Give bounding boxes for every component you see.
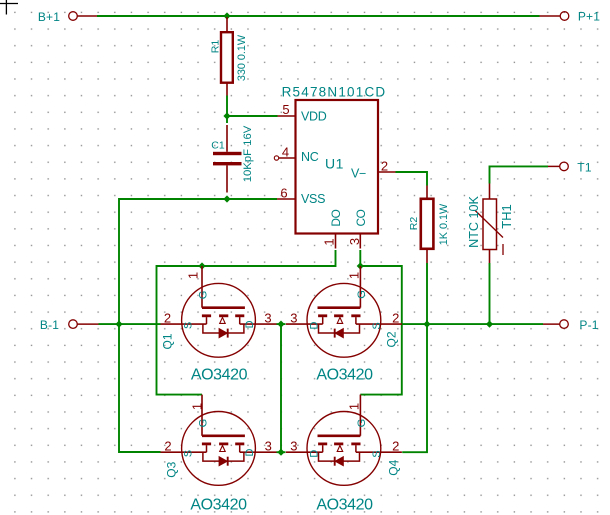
svg-text:G: G (356, 290, 368, 299)
svg-text:3: 3 (264, 311, 271, 326)
svg-text:1: 1 (347, 403, 362, 410)
svg-text:P-1: P-1 (579, 318, 598, 332)
connector pin P-1 (543, 320, 568, 329)
Q4 S label (371, 450, 383, 457)
U1 pin 5 VDD (278, 102, 327, 124)
svg-text:2: 2 (381, 158, 388, 173)
junction at R1 top on B+ wire (223, 12, 230, 19)
Q4 pin 2 number (392, 439, 399, 454)
value AO3420 (Q2) (316, 367, 373, 384)
junction drains row2 (277, 449, 284, 456)
svg-text:2: 2 (392, 311, 399, 326)
Q2 pin 1 number (347, 272, 362, 279)
svg-text:P+1: P+1 (578, 10, 600, 24)
wire R1 bottom to U1 VDD (227, 96, 278, 124)
junction C1 bottom on VSS wire (223, 195, 230, 202)
Q1 G label (198, 291, 210, 300)
value 1K 0.1W (438, 203, 450, 245)
refdes Q2 (384, 331, 398, 347)
Q3 G label (198, 419, 210, 428)
value AO3420 (Q4) (316, 496, 373, 513)
svg-text:S: S (183, 450, 195, 457)
sheet corner marker (0, 0, 18, 15)
op-amp U1 R5478N101CD body (296, 100, 379, 234)
svg-text:CO: CO (354, 209, 368, 226)
svg-text:VDD: VDD (301, 110, 327, 124)
value AO3420 (Q1) (191, 367, 248, 384)
svg-text:Q4: Q4 (387, 459, 401, 475)
connector pin B-1 (69, 320, 99, 329)
label B+1 (38, 10, 60, 24)
Q1 pin 1 number (186, 272, 201, 279)
svg-text:D: D (244, 320, 256, 328)
refdes U1 (325, 156, 344, 172)
svg-text:R2: R2 (408, 217, 420, 231)
svg-text:V−: V− (351, 167, 366, 181)
svg-text:AO3420: AO3420 (316, 496, 373, 513)
Q2 S label (371, 322, 383, 329)
Q1 pin 2 number (164, 311, 171, 326)
Q4 G label (356, 419, 368, 428)
wire B- row to Q1 source (99, 323, 161, 325)
svg-text:Q2: Q2 (384, 331, 398, 347)
value 10KpF 16V (242, 125, 254, 182)
svg-text:10KpF 16V: 10KpF 16V (242, 125, 254, 182)
wire P- row (402, 323, 543, 325)
resistor R2 (421, 186, 434, 264)
Q3 pin 3 number (265, 439, 272, 454)
svg-text:C1: C1 (211, 140, 225, 152)
svg-text:B-1: B-1 (40, 318, 59, 332)
svg-text:6: 6 (280, 185, 287, 200)
svg-text:R5478N101CD: R5478N101CD (282, 85, 387, 100)
svg-text:AO3420: AO3420 (316, 367, 373, 384)
transistor Q2 (286, 266, 402, 357)
Q2 G label (356, 290, 368, 299)
resistor R1 (221, 17, 233, 96)
value 330 0.1W (236, 34, 248, 81)
svg-text:S: S (371, 322, 383, 329)
wire DO net U1 pin1 to Q1/Q3 gates (157, 250, 336, 395)
transistor Q4 (286, 395, 402, 486)
Q1 D label (244, 320, 256, 328)
label R5478N101CD (282, 85, 387, 100)
svg-text:AO3420: AO3420 (190, 496, 247, 513)
transistor Q1 (161, 266, 277, 357)
svg-text:2: 2 (392, 439, 399, 454)
label TH1 (499, 204, 514, 229)
wire CO net U1 pin3 to Q2/Q4 gates (360, 250, 402, 395)
junction Q1 gate (198, 262, 205, 269)
label T1 (577, 160, 592, 174)
junction R2 at P- (423, 321, 430, 328)
svg-text:2: 2 (164, 311, 171, 326)
connector pin P+1 (540, 12, 569, 21)
svg-text:NTC 10K: NTC 10K (467, 196, 481, 248)
svg-text:4: 4 (282, 145, 289, 160)
label B-1 (40, 318, 59, 332)
wire drain node row1 (277, 324, 286, 452)
svg-text:B+1: B+1 (38, 10, 60, 24)
wire T1 to TH1 (490, 166, 549, 183)
svg-text:G: G (198, 419, 210, 428)
connector pin B+1 (69, 12, 97, 21)
svg-text:Q1: Q1 (160, 333, 174, 349)
svg-text:3: 3 (290, 311, 297, 326)
svg-text:TH1: TH1 (499, 204, 514, 229)
svg-text:G: G (198, 291, 210, 300)
transistor Q3 (161, 395, 277, 486)
U1 pin 4 NC (inverted) (274, 145, 318, 164)
refdes Q1 (160, 333, 174, 349)
junction drains row1 (277, 321, 284, 328)
svg-text:VSS: VSS (301, 192, 325, 206)
svg-text:G: G (356, 419, 368, 428)
svg-text:U1: U1 (325, 156, 344, 172)
Q4 pin 1 number (347, 403, 362, 410)
junction Q2 gate (357, 262, 364, 269)
connector pin T1 (548, 162, 568, 171)
svg-text:1K 0.1W: 1K 0.1W (438, 203, 450, 245)
U1 pin 3 CO (347, 209, 368, 248)
Q1 pin 3 number (264, 311, 271, 326)
label P-1 (579, 318, 598, 332)
Q4 pin 3 number (290, 439, 297, 454)
Q2 pin 2 number (392, 311, 399, 326)
svg-text:Q3: Q3 (164, 461, 178, 477)
svg-text:3: 3 (347, 238, 362, 245)
label C1 (211, 140, 225, 152)
Q2 D label (309, 321, 321, 329)
svg-text:1: 1 (190, 403, 205, 410)
svg-text:1: 1 (347, 272, 362, 279)
capacitor C1 (213, 125, 242, 193)
label R2 (408, 217, 420, 231)
refdes Q4 (387, 459, 401, 475)
wire net B+ from B+1 to P+1 (97, 15, 540, 17)
svg-text:3: 3 (290, 439, 297, 454)
refdes Q3 (164, 461, 178, 477)
label R1 (210, 40, 222, 54)
svg-text:S: S (183, 322, 195, 329)
wire R2 bottom to P- (426, 263, 428, 324)
svg-text:AO3420: AO3420 (191, 367, 248, 384)
Q1 S label (183, 322, 195, 329)
svg-text:D: D (309, 321, 321, 329)
svg-text:330 0.1W: 330 0.1W (236, 34, 248, 81)
junction at VDD node (223, 112, 230, 119)
wire TH1 bottom to P- (489, 263, 491, 324)
svg-text:2: 2 (164, 439, 171, 454)
U1 pin 6 VSS (277, 185, 325, 206)
junction VSS at B- column (115, 321, 122, 328)
Q3 S label (183, 450, 195, 457)
svg-text:NC: NC (301, 150, 319, 164)
svg-text:T1: T1 (577, 160, 592, 174)
svg-text:5: 5 (282, 102, 289, 117)
label P+1 (578, 10, 600, 24)
svg-text:1: 1 (322, 238, 337, 245)
svg-text:D: D (244, 448, 256, 456)
svg-text:DO: DO (329, 209, 343, 226)
wire VSS net C1 to U1 and down-left to B- (119, 199, 277, 452)
value AO3420 (Q3) (190, 496, 247, 513)
value NTC 10K (467, 196, 481, 248)
Q2 pin 3 number (290, 311, 297, 326)
wire V- to R2 (396, 172, 428, 186)
svg-text:R1: R1 (210, 40, 222, 54)
svg-text:3: 3 (265, 439, 272, 454)
Q3 pin 2 number (164, 439, 171, 454)
Q4 D label (309, 450, 321, 458)
svg-text:S: S (371, 450, 383, 457)
Q3 pin 1 number (190, 403, 205, 410)
U1 pin 2 V- (351, 158, 396, 180)
svg-text:1: 1 (186, 272, 201, 279)
Q3 D label (244, 448, 256, 456)
U1 pin 1 DO (322, 209, 344, 248)
junction TH1 at P- (486, 321, 493, 328)
wire P- down to Q4 source (402, 324, 427, 452)
svg-text:D: D (309, 450, 321, 458)
thermistor TH1 (475, 184, 503, 264)
